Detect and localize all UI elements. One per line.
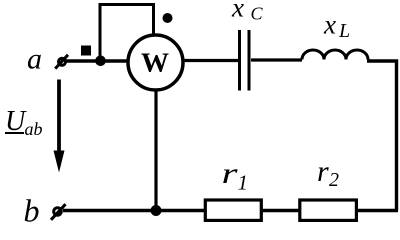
svg-text:ab: ab	[25, 119, 43, 139]
svg-text:W: W	[141, 48, 169, 78]
svg-text:r: r	[317, 155, 329, 188]
svg-text:b: b	[24, 193, 40, 226]
svg-text:L: L	[338, 20, 350, 42]
svg-text:C: C	[251, 4, 264, 24]
svg-text:1: 1	[238, 171, 249, 195]
svg-text:a: a	[27, 43, 42, 76]
svg-text:x: x	[231, 0, 244, 23]
svg-text:x: x	[323, 10, 336, 40]
svg-text:2: 2	[329, 169, 339, 191]
svg-text:r: r	[222, 157, 238, 190]
